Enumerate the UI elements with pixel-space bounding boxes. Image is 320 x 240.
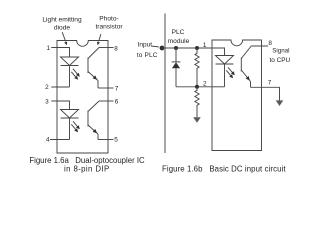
svg-text:4: 4 (46, 137, 50, 144)
svg-text:Signal: Signal (272, 47, 289, 54)
LED D4 (216, 56, 234, 87)
svg-text:1: 1 (47, 45, 51, 52)
PLC module boundary line (164, 14, 166, 154)
svg-text:1: 1 (203, 42, 207, 49)
svg-text:5: 5 (114, 137, 118, 144)
LED D2 (channel 2) (61, 110, 79, 140)
svg-text:3: 3 (45, 99, 49, 106)
label "Photo-transistor" (95, 16, 123, 31)
pin 7 wire to ground (251, 87, 280, 101)
phototransistor Q1 (channel 1) (88, 48, 99, 89)
label "PLC module" (168, 29, 190, 45)
svg-text:Light emitting: Light emitting (42, 17, 82, 24)
ground arrow (pin 7) (276, 100, 284, 106)
LED D4 cathode wire to pin 2 (212, 86, 225, 88)
label "Light emitting diode" (42, 17, 82, 32)
junction node B (195, 46, 199, 50)
top wire (input to pin 1) (162, 47, 212, 49)
label "Signal to CPU" (270, 47, 291, 64)
svg-text:in 8-pin DIP: in 8-pin DIP (64, 164, 110, 173)
svg-text:8: 8 (268, 40, 272, 47)
pin 8 wire (signal out) (251, 45, 268, 47)
LED D4 anode wire (212, 48, 225, 56)
svg-text:7: 7 (115, 85, 119, 92)
protection diode D3 (172, 48, 181, 87)
IC U1 outline 8-pin DIP with notch (57, 41, 108, 154)
LED D1 (channel 1) (61, 57, 79, 87)
phototransistor Q2 (channel 2) (88, 101, 99, 140)
pin 8 wire (99, 47, 114, 49)
input resistor R1 (195, 48, 199, 87)
callout arrow to phototransistor (97, 34, 101, 45)
svg-text:module: module (168, 38, 190, 45)
pin 7 wire (98, 87, 114, 89)
phototransistor Q3 (241, 46, 251, 87)
svg-text:8: 8 (114, 45, 118, 52)
pin 3 wire (51, 101, 69, 110)
svg-text:PLC: PLC (172, 29, 185, 36)
pin 1 wire (51, 48, 69, 58)
callout arrow to LED (62, 32, 67, 45)
caption figure 1.6a (29, 156, 145, 174)
optocoupler module box (212, 40, 262, 151)
pin 6 wire (99, 100, 114, 102)
svg-text:transistor: transistor (95, 24, 123, 31)
junction node A (174, 46, 178, 50)
pin 2 wire (51, 86, 69, 88)
input terminal (160, 46, 165, 51)
light emission arrows (D4) (226, 67, 235, 78)
label "Input to PLC" (137, 42, 158, 59)
input leader dash (152, 45, 159, 48)
pin 5 wire (98, 139, 114, 141)
svg-text:Photo-: Photo- (99, 16, 118, 23)
light emission arrows (channel 2) (71, 121, 80, 132)
divider resistor R2 (195, 87, 199, 117)
junction node C (195, 85, 199, 89)
svg-text:diode: diode (54, 25, 70, 32)
light emission arrows (channel 1) (71, 69, 80, 80)
svg-text:to CPU: to CPU (270, 57, 291, 64)
svg-text:Figure 1.6b Basic DC input c: Figure 1.6b Basic DC input circuit (162, 165, 286, 174)
svg-text:7: 7 (268, 80, 272, 87)
bottom wire (to pin 2) (176, 86, 212, 88)
svg-text:6: 6 (115, 98, 119, 105)
svg-text:Input: Input (138, 42, 153, 49)
svg-text:2: 2 (45, 84, 49, 91)
pin 4 wire (50, 139, 70, 141)
svg-text:to PLC: to PLC (137, 52, 158, 59)
ground arrow (R2) (193, 117, 201, 123)
svg-text:2: 2 (203, 80, 207, 87)
